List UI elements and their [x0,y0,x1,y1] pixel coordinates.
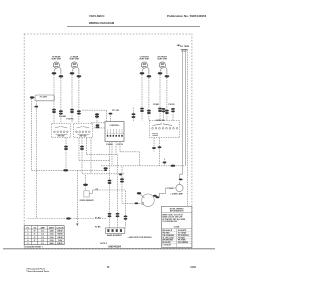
svg-text:5.2: 5.2 [41,234,44,236]
surface unit LT FRONT plug connectors [140,72,145,74]
svg-text:* Non-Illustrated Parts: * Non-Illustrated Parts [26,270,50,273]
EOC terminal blocks [107,135,123,137]
connector bus B6 end junction [104,167,108,169]
surface unit RT FRONT plug connectors [158,72,163,74]
connector pair unit4 left [158,108,162,110]
bus wire B3 [79,159,110,161]
svg-text:INFORMATION: INFORMATION [170,209,184,212]
connector pair unit3 right [147,110,151,112]
surface unit LT REAR element circle [71,62,77,68]
wire EOC left feed stub [96,118,98,123]
svg-text:P9 RD: P9 RD [169,104,175,106]
bus wire B2 staircase [120,151,140,153]
svg-text:8": 8" [34,231,36,233]
wire unit1 right lead down [60,78,62,124]
svg-text:2980: 2980 [49,243,53,245]
header horizontal rule [67,25,200,27]
connector pair unit1 right [59,110,63,112]
connector below selector L [152,147,156,149]
svg-text:#316243400 SHEET 1: #316243400 SHEET 1 [24,245,42,248]
wire into EOC top left [82,109,107,111]
svg-text:WATT: WATT [49,226,55,229]
electronic oven control box [105,122,124,142]
wire drop to bake a [109,160,111,213]
svg-text:# Functional Parts: # Functional Parts [26,267,46,270]
infinite switch LF terminals [54,131,69,133]
infinite switch LF dashed box [52,123,71,137]
terminal block lead L2 [184,49,186,165]
EOC pin stubs [108,129,123,135]
notes box content [161,208,192,247]
wire unit4 left lead down [159,75,161,121]
svg-text:SURF UNIT: SURF UNIT [51,59,62,61]
bus wire B6 oven light return [31,169,106,171]
svg-text:P2 BK: P2 BK [95,226,101,228]
connector pair mid a [108,180,112,182]
svg-text:SURF UNIT: SURF UNIT [157,59,168,61]
surface unit RT REAR element circle [53,62,59,68]
connector pair EOC left feed 2 [96,124,100,126]
svg-text:1100: 1100 [50,237,54,239]
svg-text:INF SW: INF SW [80,136,87,138]
svg-text:P5: P5 [96,189,98,191]
svg-text:SURF UNIT: SURF UNIT [69,59,80,61]
svg-text:NOTE 2: NOTE 2 [100,243,107,245]
connector motor left [135,202,139,204]
svg-text:CODE: CODE [174,226,180,228]
connector pair unit2 left [70,109,74,111]
svg-text:8": 8" [34,240,36,242]
svg-text:FEFL89CC: FEFL89CC [89,14,105,18]
wire switch return down to chassis [76,170,78,218]
wire sensor line right dashed [100,189,126,191]
wire L1 to oven lamp branch [180,174,183,179]
connector pair EOC right [132,113,136,115]
svg-text:YL/W: YL/W [58,240,63,242]
svg-text:1: 1 [27,231,28,233]
connector bus B6 mid [63,169,68,171]
svg-text:INF SW: INF SW [58,136,65,138]
svg-text:P14 BK: P14 BK [59,115,67,118]
terminal block lead L1 [182,49,184,174]
bake element box [106,228,125,234]
wire drop sw2 out d [90,138,92,174]
svg-text:6.5: 6.5 [41,231,44,233]
connector pair selector left [162,108,166,110]
connector pair sw2 out [80,146,84,148]
infinite switch RF internal contacts [77,127,90,135]
wire drop sw2 out c [86,138,88,155]
svg-text:P15 RD: P15 RD [66,119,74,121]
svg-text:CONTROL: CONTROL [110,125,121,127]
wire lamp to motor [157,188,176,197]
svg-text:COLORS BELOW.: COLORS BELOW. [162,221,177,223]
EOC internal dashed line [105,133,124,135]
connector pair unit2 right [77,110,81,112]
oven sensor body [84,191,89,197]
svg-text:6": 6" [34,237,36,239]
svg-text:P LIGHT: P LIGHT [40,96,48,98]
surface unit LT FRONT element circle [141,62,147,68]
wire drop d from sensor line [125,191,127,216]
surface unit RT REAR lead wires [54,67,61,75]
svg-text:11/03: 11/03 [190,267,196,269]
wire EOC bottom drop 1 [109,142,111,161]
wire EOC bottom drop 3 [115,142,117,155]
wire into EOC top mid [110,113,112,121]
connector pair unit4 right [165,110,169,112]
wire EOC bottom drop 4 [119,142,121,152]
wire into EOC right pair [133,108,135,122]
connector pair sw1 out [64,146,68,148]
wire drop to bake b [117,155,119,214]
svg-text:V VIOLET: V VIOLET [162,244,171,246]
svg-text:P1 RD: P1 RD [95,217,101,219]
connector bake 1 [108,213,112,215]
surface unit RT REAR plug connectors [52,72,57,74]
oven light box [35,95,54,101]
oven light left stub wire [31,97,35,99]
svg-text:1250: 1250 [49,231,53,233]
svg-text:P24 BK: P24 BK [106,143,113,146]
connector bake 3 [124,215,128,217]
wires below selector box [153,138,155,148]
svg-text:P8 BK: P8 BK [153,104,159,106]
wire unit2 right lead down [78,78,80,124]
terminal block body [181,49,188,51]
connector below selector R [158,146,162,148]
wire drop sw2 out b [81,138,83,174]
svg-text:OVEN SENSOR: OVEN SENSOR [80,200,95,202]
svg-text:5.2: 5.2 [41,237,44,239]
selector internal contacts [152,124,172,136]
connector pair unit3 left [140,108,144,110]
connector selector drop mid [163,161,167,163]
wire motor left [122,202,141,204]
wire unit3 right lead down [148,78,150,121]
wire EOC bottom drop 2 [111,142,113,166]
wire chassis branch down arrow [76,219,78,224]
bottom horizontal rule [3,248,215,250]
wire drop sw1 out [65,138,67,171]
surface unit RT FRONT lead wires [160,67,167,75]
surface unit LT FRONT lead wires [142,67,149,75]
surface unit LT REAR plug connectors [70,72,75,74]
infinite switch LF internal contacts [55,127,68,135]
surface unit LT REAR lead wires [72,67,79,75]
terminal block label with arrow [177,44,180,46]
svg-text:BK/W: BK/W [58,231,63,233]
bus wire B5 [101,165,185,167]
svg-text:BR/W: BR/W [58,243,63,245]
wires bake leads down [109,217,111,228]
svg-text:WIRING DIAGRAM: WIRING DIAGRAM [89,21,115,25]
connector chassis wire [66,217,71,219]
svg-text:+ OVEN LAMP: + OVEN LAMP [170,192,184,195]
parts table grid [24,226,64,245]
svg-text:2: 2 [27,234,28,236]
svg-text:P#1 TERM: P#1 TERM [180,46,190,48]
connector bus B5 end [171,165,176,167]
connector oven light bottom [34,106,38,108]
wire into EOC left side 2 [94,127,105,129]
wire unit3 left lead down [141,75,143,121]
svg-text:RD/W: RD/W [58,234,63,236]
motor terminal small circle [141,202,143,204]
wire oven light bottom down long [35,101,37,219]
motor top-left connector blob [137,192,141,194]
svg-text:BAKE ELEMENT: BAKE ELEMENT [107,234,123,237]
svg-text:6.5: 6.5 [41,240,44,242]
svg-text:COLOR: COLOR [57,227,64,229]
svg-text:P11 OR: P11 OR [112,110,120,112]
svg-text:Publication No. 5995443954: Publication No. 5995443954 [167,14,207,18]
svg-text:6": 6" [34,234,36,236]
dashed diagram border frame [24,34,192,248]
bus wire B7 [82,173,125,175]
bus wire B1 [87,154,118,156]
terminal block lead N dashed [187,49,189,206]
oven selector switch dashed box [150,120,180,137]
notes box frame [161,206,192,247]
wire drop c to motor [121,167,123,204]
bake element terminals [107,229,122,232]
connector oven light left [30,96,34,98]
connector bake 2 [116,213,120,215]
infinite switch RF terminals [76,131,91,133]
wire unit4 right lead down [166,78,168,121]
connector EOC top mid [109,113,113,115]
svg-text:5995443954: 5995443954 [108,245,121,248]
wire oven light return down long [30,99,32,171]
svg-text:SURF UNIT: SURF UNIT [139,59,150,61]
connector oven sensor [83,184,88,186]
selector terminals [152,127,178,129]
wire unit1 left lead down [53,75,55,124]
svg-text:5: 5 [27,243,28,245]
parts table header text [27,226,64,245]
convection fan motor circle [142,194,155,207]
surface unit RT FRONT element circle [159,62,165,68]
svg-text:+ SEE NOTE FOR DETAILS: + SEE NOTE FOR DETAILS [128,237,153,239]
svg-text:OR/W: OR/W [57,237,62,239]
wire drop sw2 out a [78,138,80,161]
wires unit4/selector into box top [163,112,165,121]
svg-text:3: 3 [27,237,28,239]
junction bake feed [119,173,122,175]
connector pair selector right [171,108,175,110]
connector pair EOC left feed [95,113,99,115]
wire sensor to right [89,190,99,194]
svg-text:2100: 2100 [49,240,53,242]
connector oven lamp top [179,178,183,180]
infinite switch RF dashed box [74,123,93,137]
motor right connector pair [153,195,157,197]
oven lamp circle [176,184,183,191]
wire into EOC left side [91,122,105,124]
svg-text:9.1: 9.1 [41,243,44,245]
connector pair unit1 left [52,109,56,111]
wire to oven sensor [85,175,87,184]
chassis wire horizontal [28,218,108,220]
svg-text:1100: 1100 [50,234,54,236]
wire unit2 left lead down [71,75,73,124]
connector pair mid c [120,178,124,180]
svg-text:P 40W: P 40W [167,187,173,190]
